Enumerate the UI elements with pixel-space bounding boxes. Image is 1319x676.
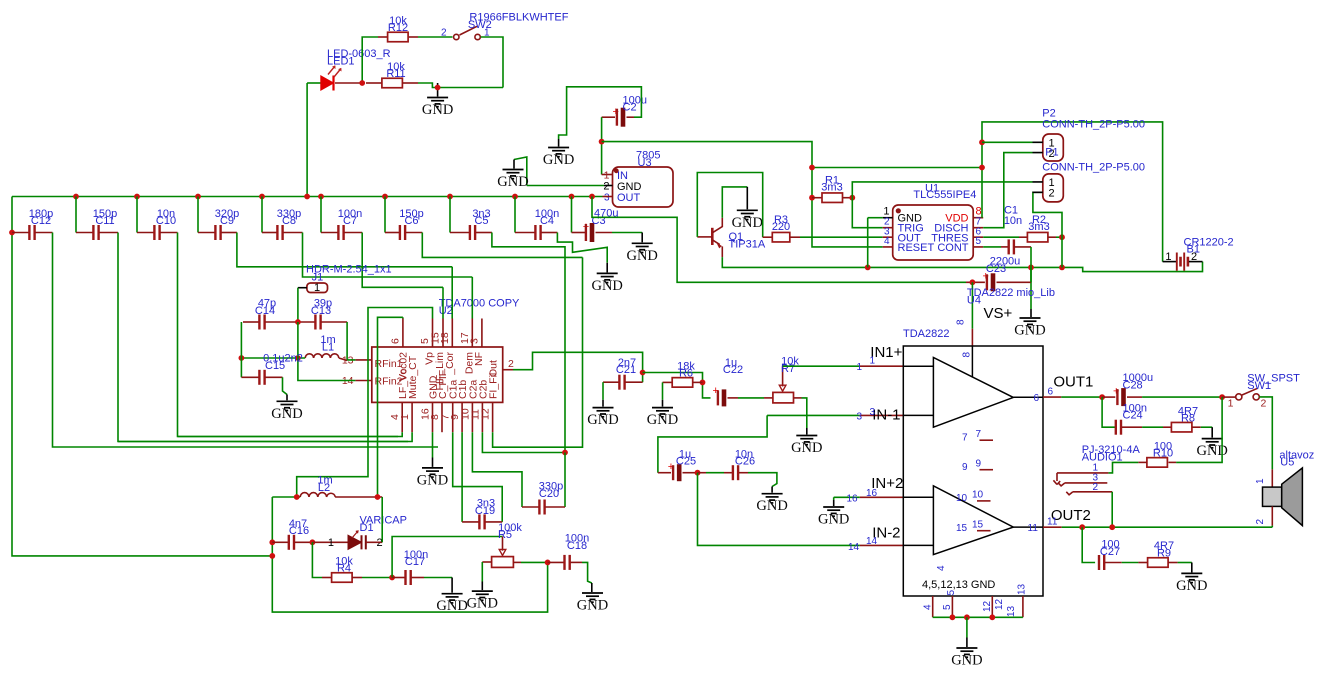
svg-text:L1: L1 [322,342,334,354]
U4 bottom pins 4 5 12 13 [933,596,1023,617]
svg-text:10: 10 [956,493,968,504]
svg-text:R11: R11 [386,68,405,80]
svg-text:GND: GND [951,653,982,669]
svg-text:C20: C20 [539,488,559,500]
wire left vertical C14-C15 [240,322,242,377]
svg-text:C19: C19 [475,505,495,517]
capacitor C4 [534,225,536,240]
svg-text:U2: U2 [439,305,453,317]
C23 plates [986,274,988,290]
svg-text:C12: C12 [31,215,51,227]
svg-text:12: 12 [982,600,993,612]
capacitor C11 [92,225,94,240]
C27 plates [1098,555,1100,570]
ground for U3 GND pin [503,170,524,179]
svg-text:10n: 10n [1004,215,1022,227]
C24 plates [1115,420,1117,435]
wire U2 pin7 to C19 right [453,432,503,522]
resistor R10 [1169,461,1177,463]
svg-text:CONN-TH_2P-P5.00: CONN-TH_2P-P5.00 [1042,118,1145,130]
svg-text:C2: C2 [623,102,637,114]
wire bus drop to C12 [12,232,29,234]
ground at Q1 collector [737,210,758,219]
svg-text:4: 4 [923,604,934,610]
wire R4 right up to R5 wiper [392,537,502,578]
potentiometer R7 10k [764,397,773,399]
svg-text:R5: R5 [498,529,512,541]
wire C8 right lead [284,232,303,234]
svg-text:R7: R7 [781,363,795,375]
svg-text:3: 3 [604,192,610,203]
capacitor C3 [585,224,587,241]
wire C10 to U2 pin4 [178,233,399,437]
capacitor C9 [214,225,216,240]
wire C28 right down to R10 [1176,397,1222,462]
resistor R4 [322,577,332,579]
wire C7 to U2 pin15 [362,233,443,288]
ground right of C3 [632,243,653,252]
svg-text:13: 13 [1006,605,1017,617]
ground below C21 [593,408,614,417]
svg-text:6: 6 [390,338,402,344]
wire U4 ground bus [933,616,1023,618]
svg-text:220: 220 [772,221,790,233]
capacitor C10 [153,225,155,240]
svg-text:GND: GND [422,102,453,118]
svg-text:C23: C23 [986,263,1006,275]
wire C5 branch down [492,233,565,453]
svg-text:P1: P1 [1045,147,1058,159]
svg-text:2: 2 [1093,482,1099,493]
wire R5 left to ground [481,562,483,582]
svg-text:CONN-TH_2P-P5.00: CONN-TH_2P-P5.00 [1042,162,1145,174]
C21 plates [618,375,620,390]
capacitor C2 (100u polarized) [602,116,615,118]
svg-text:C9: C9 [220,215,234,227]
svg-text:R9: R9 [1157,547,1171,559]
svg-text:R6: R6 [679,368,693,380]
svg-text:C24: C24 [1123,410,1143,422]
svg-text:1: 1 [1165,251,1171,263]
svg-text:NF: NF [473,352,485,366]
svg-text:4: 4 [936,565,947,571]
svg-text:D1: D1 [360,522,374,534]
svg-text:13: 13 [1017,583,1028,595]
wire C9 to U2 pin18 [237,233,452,267]
svg-text:C7: C7 [343,215,357,227]
wire C5 right lead [476,232,492,234]
svg-text:GND: GND [467,596,498,612]
svg-text:16: 16 [847,493,859,504]
resistor R8 [1163,426,1171,428]
wire left loop vertical [272,497,547,612]
capacitor C6 [399,225,401,240]
wire SW1 to speaker pin1 [1259,397,1272,470]
potentiometer R5 100k [502,537,504,551]
svg-text:12: 12 [479,408,491,420]
svg-text:TIP31A: TIP31A [729,238,766,250]
wire U1 VDD pin up [982,122,1163,262]
amplifier U4 TDA2822 [903,346,1043,596]
wire R3 to U1 OUT [800,236,883,238]
IC U2 TDA7000 COPY [372,347,503,402]
svg-text:C14: C14 [255,305,275,317]
wire L2 left lead [272,496,300,498]
svg-text:GND: GND [791,440,822,456]
wire U2 pin11 to C20 right [482,432,565,452]
svg-text:18: 18 [439,332,451,344]
wire C2 left down to U3 IN [601,117,603,174]
wire C3 right to GND [596,232,613,234]
svg-text:OUT: OUT [617,192,641,204]
svg-text:GND: GND [626,248,657,264]
svg-text:TLC555IPE4: TLC555IPE4 [913,189,976,201]
ground below C17 [442,594,463,603]
wire C28 left down to C24 [1102,397,1115,427]
svg-text:7: 7 [976,429,982,440]
wire C23 right down to ground [1030,267,1032,282]
wire supply to 555 area [602,142,883,247]
svg-text:GND: GND [577,598,608,614]
wire U2 pin12 to C6 [493,257,583,447]
wire U1 CONT to C1 [983,246,1001,248]
svg-text:R10: R10 [1153,448,1173,460]
svg-text:IN1+: IN1+ [870,344,902,361]
svg-text:U4: U4 [967,294,981,306]
svg-text:C28: C28 [1123,379,1143,391]
svg-text:9: 9 [976,459,982,470]
svg-text:3m3: 3m3 [821,182,842,194]
LED LED1 [321,76,334,90]
svg-text:Mute_CT: Mute_CT [407,355,419,399]
wire Q1 base loop to R3 [697,236,712,238]
svg-text:GND: GND [436,598,467,614]
wire C1 right down to rail and GND [1030,247,1032,309]
wire C23 left junction down to U4 VS+ [970,279,976,285]
wire main supply bus [12,196,603,198]
resistor R12 [388,32,409,42]
capacitor C17 [392,577,405,579]
ground at U4 IN+2 [823,507,844,516]
svg-text:3: 3 [870,407,876,418]
C28 plates [1116,389,1118,405]
svg-text:C6: C6 [404,215,418,227]
wire U2 pin15 up [442,287,444,318]
inductor L1 1m [305,354,339,358]
svg-text:GND: GND [756,498,787,514]
capacitor C7 [337,225,339,240]
wire U3 GND pin to ground [604,185,613,187]
wire bus branch to 555 supply rail [592,197,966,283]
wire R2 right up to P2 lower pin2 [1033,192,1062,237]
svg-text:L2: L2 [318,482,330,494]
svg-text:LED1: LED1 [327,55,355,67]
regulator U3 7805 [613,167,674,207]
wire C8 to U2 pin17 [303,233,473,278]
svg-text:AUDIO1: AUDIO1 [1082,451,1123,463]
capacitor C5 [469,225,471,240]
svg-text:C27: C27 [1100,546,1120,558]
svg-text:10: 10 [972,490,984,501]
svg-text:GND: GND [587,412,618,428]
svg-text:2: 2 [508,358,514,370]
wire J1 down to C14/C13 node [297,288,299,322]
timer U1 TLC555IPE4 [893,205,974,260]
wire U1 THRES to R2 [983,236,1019,238]
svg-text:C13: C13 [311,305,331,317]
svg-text:GND: GND [271,406,302,422]
wire U2 pin18 up [451,267,453,319]
svg-text:U3: U3 [638,157,652,169]
ground below R7 [796,436,817,445]
ground right of C26 [762,494,783,503]
svg-text:2: 2 [441,28,447,39]
svg-text:C22: C22 [723,364,743,376]
svg-text:6: 6 [1048,387,1054,398]
C17 plates [404,570,406,585]
wire branch to VDD net [812,167,982,169]
wire D1 cathode up to L2 right [366,541,382,543]
svg-text:C5: C5 [474,215,488,227]
switch SW2 [454,34,459,39]
svg-text:14: 14 [848,542,860,553]
C25 plates [672,465,674,480]
svg-text:8: 8 [956,319,967,325]
resistor R8 [1171,422,1192,432]
svg-text:C17: C17 [405,556,425,568]
resistor R1 [822,193,843,203]
resistor R6 [663,381,673,383]
svg-text:C8: C8 [282,215,296,227]
wire U2 pin4 left [178,432,403,436]
svg-text:GND: GND [417,472,448,488]
wire C7 right lead [345,232,363,234]
transistor Q1 TIP31A [711,228,714,245]
wire C12 to U2 pin8 [53,233,439,448]
svg-text:OUT1: OUT1 [1053,374,1093,391]
wire C6 to U2 pin12 [422,233,582,258]
wire L2 right lead [335,496,382,498]
svg-text:C15: C15 [265,360,285,372]
capacitor C1 [1008,239,1010,254]
wire C11 to U2 pin1 [118,233,408,442]
ground below C18 [582,593,603,602]
ground below R9 [1181,573,1202,582]
wire C12 right lead [36,232,53,234]
wire C2 right to GND [627,116,635,118]
resistor R9 [1148,558,1169,568]
wire C21 left to ground [602,382,604,400]
svg-text:15: 15 [972,520,984,531]
wire C9 right lead [222,232,237,234]
wire U4 OUT2 [1043,526,1062,528]
wire U2 pin10 to C20 left [472,432,522,507]
wire U2 pin5 to L2 left [297,308,433,498]
wire R1 right down to U1 TRIG [852,198,882,228]
wire R12 to SW2 [409,36,418,38]
ground below C15 [277,401,298,410]
wire U4 OUT1 [1043,396,1061,398]
wire jack pin2 down to OUT2 [1111,492,1113,527]
svg-text:5: 5 [946,590,957,596]
wire U2 pin1 left [118,432,412,441]
svg-text:GND: GND [497,174,528,190]
wire P2 pin1 to VDD rail [982,141,1033,143]
svg-text:R8: R8 [1181,413,1195,425]
connector P2 [1043,134,1064,161]
ground below R5 [472,591,493,600]
op-amp triangle 1 [933,358,1013,428]
wire C4 to GND [557,233,607,263]
op-amp triangle 2 [933,486,1013,555]
C18 plates [563,555,565,570]
svg-text:8: 8 [962,352,973,358]
wire U2 pin9 to C19 left [461,432,463,522]
wire C18 right to ground [582,562,592,583]
wire U4 IN+2 to ground [834,496,860,498]
resistor R11 [382,78,403,88]
C14 plates [258,315,260,330]
wire bus drop to C5 [449,197,451,233]
svg-text:4: 4 [884,236,890,247]
ground below C2 [548,148,569,157]
wire bus drop to C7 [320,197,322,233]
wire R9 right to ground [1178,562,1192,564]
capacitor C13 [298,321,315,323]
ground left of R6 [652,408,673,417]
svg-text:TDA2822: TDA2822 [903,328,949,340]
capacitor C23 (2200u polarized) [966,281,985,283]
wire bus drop to C6 [384,197,386,233]
resistor R4 [332,573,353,583]
svg-text:11: 11 [1028,523,1039,534]
svg-text:GND: GND [818,512,849,528]
wire bus drop to C8 [261,197,263,233]
wire bus drop to C9 [197,197,199,233]
svg-text:9: 9 [962,462,968,473]
resistor R3 [772,232,790,242]
svg-text:1: 1 [314,282,320,294]
svg-text:C25: C25 [676,456,696,468]
ground below R8 [1202,439,1223,448]
wire junction up to R12 [362,37,378,83]
wire C11 right lead [100,232,119,234]
C16 plates [288,535,290,550]
svg-text:U5: U5 [1280,456,1294,468]
resistor R9 [1138,562,1147,564]
wire U2 pin16 to ground [432,432,434,457]
wire C16 node down to R4 [312,542,322,577]
wire C25 node down to U4 IN-2 [698,473,860,546]
wire left bus vertical down [12,197,272,556]
svg-text:GND: GND [1196,443,1227,459]
connector P1 [1043,174,1064,202]
capacitor C16 [272,541,288,543]
C2 plates [616,109,618,126]
svg-text:SW2: SW2 [468,19,492,31]
ground below C23 [1020,318,1041,327]
varicap diode D1 [312,541,348,543]
capacitor C12 [28,225,30,240]
ground below U4 [956,648,977,657]
wire R2 right down to rail [1061,237,1063,267]
wire R10 left to jack pin1 [1108,462,1138,473]
C22 plates [717,390,719,405]
svg-text:2: 2 [1261,398,1267,410]
svg-text:15: 15 [956,523,968,534]
svg-text:Out: Out [488,360,500,377]
svg-text:1: 1 [857,362,863,373]
wire R8 right to ground [1201,426,1212,428]
wire bus drop to C11 [75,197,77,233]
capacitor C26 [698,472,707,474]
svg-text:C16: C16 [289,525,309,537]
capacitor C15 [241,376,259,378]
svg-text:1: 1 [328,537,334,549]
wire bus drop to C3 [571,197,573,233]
svg-text:C11: C11 [95,215,114,227]
svg-text:SW1: SW1 [1247,380,1271,392]
svg-text:GND: GND [647,412,678,428]
resistor R11 [366,82,382,84]
ground below C4 branch [597,273,618,282]
resistor R10 [1147,458,1168,468]
svg-text:VS+: VS+ [984,305,1013,322]
wire R7 right to ground [802,398,807,428]
wire C4 right lead [542,232,558,234]
wire R7 wiper to U4 IN1+ [783,365,860,367]
capacitor C25 (1u polarized) [658,472,671,474]
capacitor C21 [603,381,619,383]
wire node to L1 left [241,357,305,359]
svg-text:GND: GND [591,278,622,294]
wire SW2 pin1 down to GND node [481,37,503,88]
wire R1 right up to P1 pin1 [852,182,1032,198]
wire Q1 collector to GND [722,187,747,218]
capacitor C19 [462,521,478,523]
switch SW1 SW_SPST [1222,396,1236,398]
wire C10 right lead [161,232,178,234]
wire LED1 cathode to R11 junction [335,82,362,84]
wire U2 pin6 to L2 right [402,317,404,318]
wire bus drop to C10 [136,197,138,233]
svg-text:C10: C10 [156,215,176,227]
svg-text:GND: GND [1014,323,1045,339]
svg-text:7: 7 [962,433,968,444]
svg-text:C18: C18 [567,540,587,552]
wire C21 node to R6 right [643,373,711,398]
svg-text:1: 1 [1228,398,1234,410]
C20 plates [538,500,540,515]
svg-text:5: 5 [976,236,982,247]
svg-text:11: 11 [1047,517,1058,528]
svg-text:GND: GND [732,215,763,231]
wire C17 right to ground [424,577,452,579]
svg-text:GND: GND [1176,578,1207,594]
svg-text:3: 3 [469,338,481,344]
svg-text:1: 1 [1255,478,1266,484]
svg-text:B1: B1 [1187,244,1200,256]
wire U1 GND pin down to rail [868,217,883,219]
svg-text:12: 12 [994,598,1005,610]
wire LED1 anode to top bus [307,82,321,84]
svg-text:C26: C26 [735,456,755,468]
svg-text:4,5,12,13 GND: 4,5,12,13 GND [922,579,995,591]
svg-text:14: 14 [866,536,878,547]
svg-text:2: 2 [1255,519,1266,525]
capacitor C28 (1000u polarized) [1102,396,1115,398]
ground below R11 [437,83,439,97]
